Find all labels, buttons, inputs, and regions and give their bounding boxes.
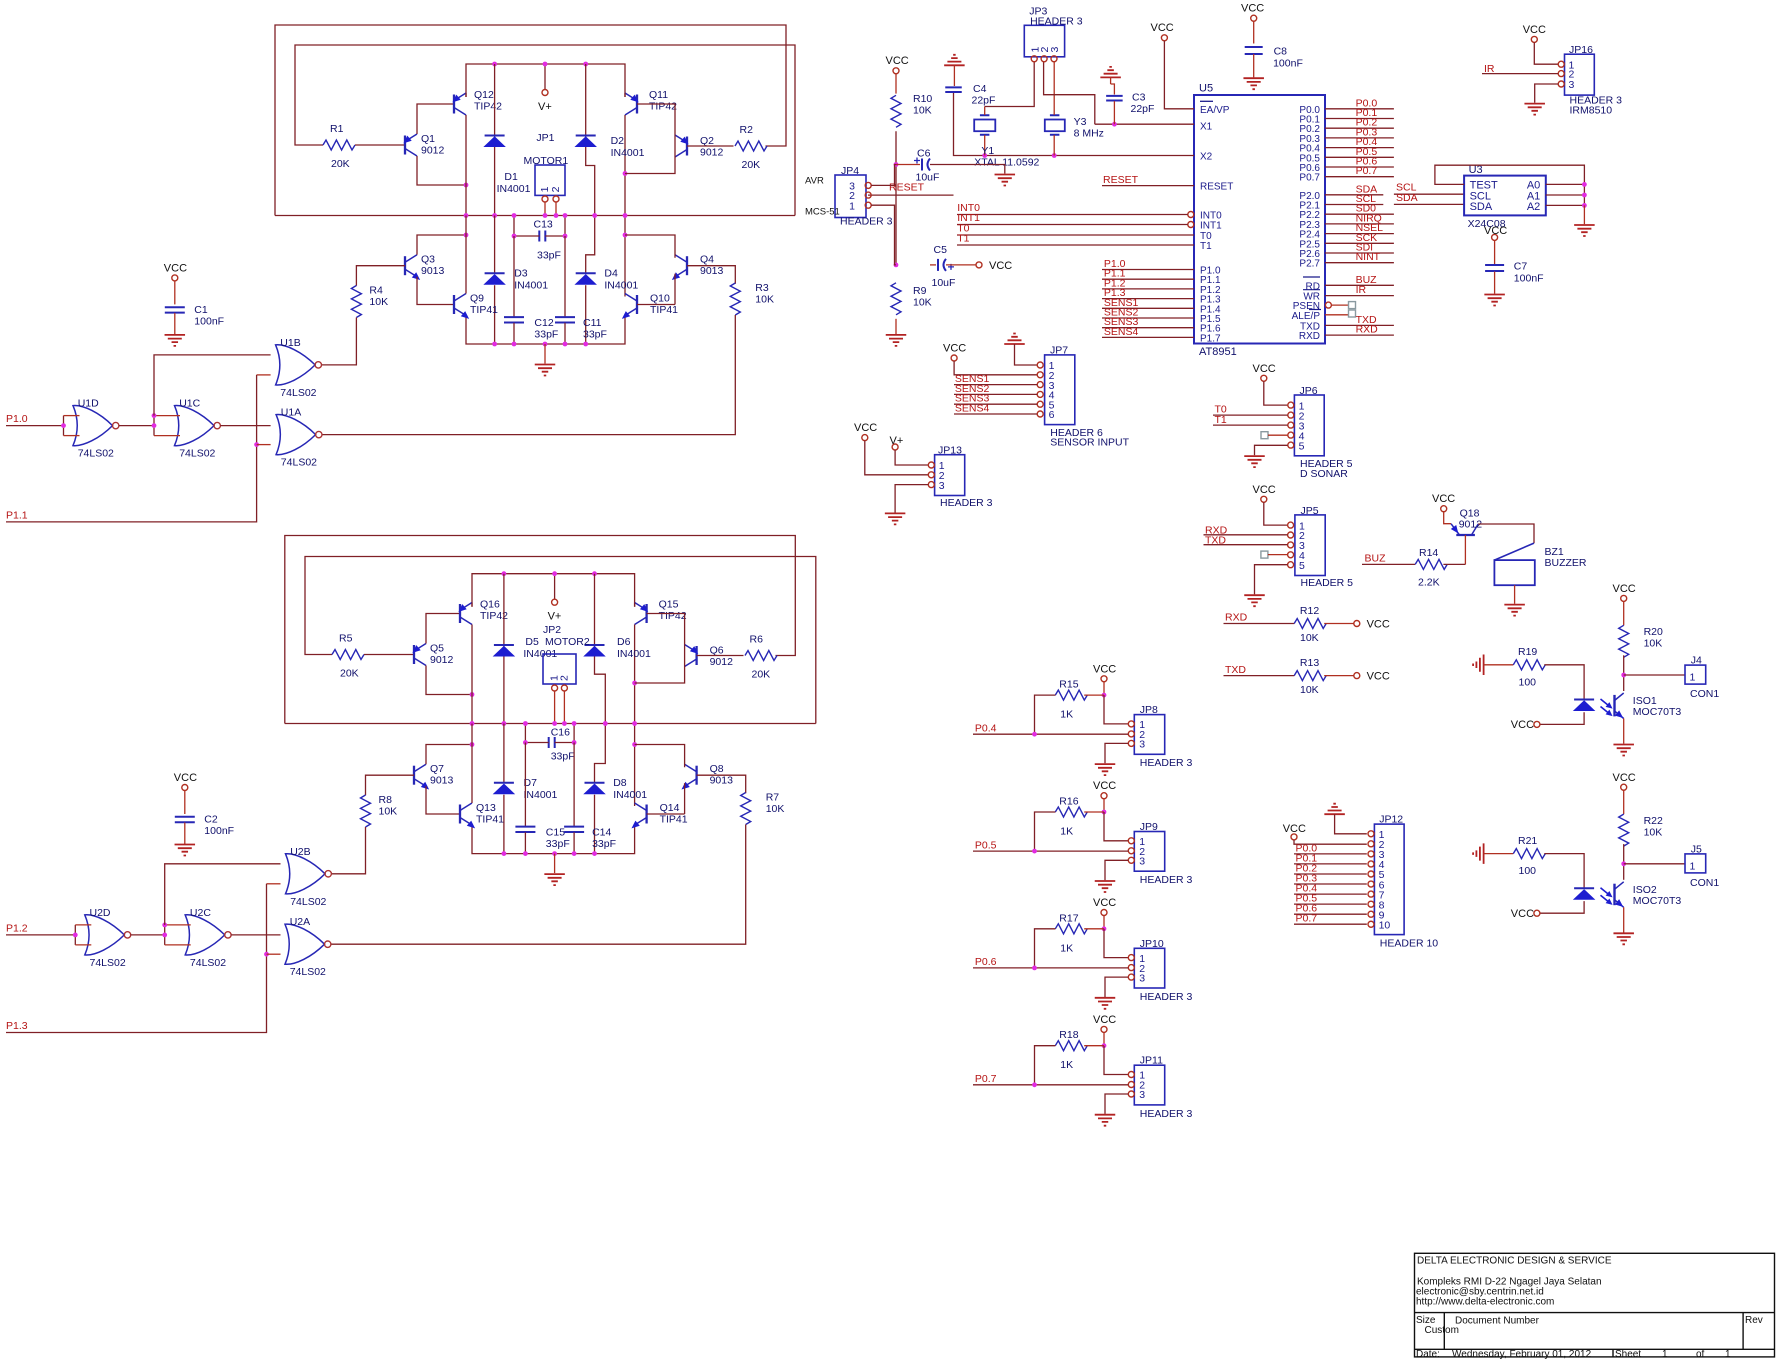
svg-text:74LS02: 74LS02 [90, 957, 126, 969]
svg-text:R16: R16 [1059, 796, 1078, 808]
junction [512, 234, 517, 239]
svg-text:T1: T1 [1200, 241, 1212, 252]
label Q6 [710, 645, 724, 657]
wire U1C input2 stub [154, 435, 180, 437]
label U1C value [179, 448, 215, 460]
label D2 value [611, 147, 645, 159]
label R10 [913, 93, 932, 105]
svg-text:1: 1 [1725, 1349, 1731, 1359]
wire net P0.7 JP12 [1294, 923, 1367, 925]
transistor Q14 TIP41 NPN [629, 803, 646, 831]
svg-text:V+: V+ [538, 101, 552, 113]
power VCC Q18 [1432, 493, 1455, 512]
NOR gate U1A 74LS02 [276, 415, 322, 455]
wire ISO2 emitter to ground [1623, 907, 1625, 932]
label C12 [534, 317, 553, 329]
svg-text:R20: R20 [1644, 626, 1663, 638]
connector JP7 HEADER 6 [1045, 355, 1075, 425]
label U2A [290, 916, 310, 928]
label Q15 value [659, 610, 687, 622]
wire to J4 [1624, 674, 1685, 676]
IC U5 AT89S51 microcontroller [1194, 95, 1325, 344]
label Q11 [649, 89, 668, 101]
svg-text:C16: C16 [551, 727, 570, 739]
svg-text:Rev: Rev [1745, 1315, 1763, 1326]
wire VCC to R16 [1103, 799, 1105, 812]
junction [572, 740, 577, 745]
svg-text:SENSOR INPUT: SENSOR INPUT [1050, 437, 1129, 449]
label U2D [90, 907, 111, 919]
pin 2 JP5 [1288, 530, 1305, 542]
svg-text:VCC: VCC [164, 262, 187, 274]
pin 2 JP6 [1288, 410, 1305, 422]
connector JP5 HEADER 5 [1295, 515, 1325, 576]
pin 5 JP6 [1288, 440, 1305, 452]
label R14 [1419, 547, 1438, 559]
connector JP9 HEADER 3 [1134, 832, 1164, 872]
svg-text:of: of [1696, 1349, 1705, 1359]
net label P1.2 [6, 922, 28, 934]
power VCC JP7 [943, 343, 966, 362]
pin WR U5 [1303, 292, 1320, 303]
transistor Q9 TIP41 NPN [454, 294, 471, 322]
ground R19 [1473, 655, 1484, 676]
wire VCC to JP16 pin1 [1534, 42, 1558, 64]
label C16 [551, 727, 570, 739]
junction [512, 213, 517, 218]
label U5 value [1199, 346, 1237, 358]
svg-text:20K: 20K [331, 158, 350, 170]
svg-text:VCC: VCC [1484, 225, 1507, 237]
svg-text:C5: C5 [934, 244, 948, 256]
ground ISO1 [1613, 745, 1634, 756]
net label NSEL [1356, 222, 1384, 234]
wire net T0 [957, 234, 1194, 236]
wire U2C input tie [164, 925, 166, 945]
wire C11 column [564, 236, 566, 317]
capacitor C15 33pF [515, 827, 535, 832]
svg-text:JP1: JP1 [536, 132, 554, 144]
svg-text:R10: R10 [913, 93, 932, 105]
ground [175, 845, 196, 856]
svg-text:P1.0: P1.0 [6, 413, 28, 425]
net label RXD JP5 [1205, 524, 1228, 536]
net label P1.0 [1104, 258, 1126, 270]
junction [552, 721, 557, 726]
label Q11 value [649, 101, 677, 113]
label D3 [514, 268, 528, 280]
wire D1 column [494, 64, 496, 216]
wire Q15 base to Q6 emitter [647, 614, 685, 645]
wire net SENS4 JP7 [954, 413, 1037, 415]
transistor Q10 TIP41 NPN [620, 294, 637, 322]
svg-text:Q6: Q6 [710, 645, 724, 657]
wire JP1 pin2 [555, 202, 557, 216]
label MOTOR1 [524, 155, 569, 167]
svg-text:D8: D8 [613, 777, 627, 789]
resistor R2 20K [735, 141, 767, 151]
resistor R20 10K [1619, 625, 1629, 657]
pin 3 JP6 [1288, 420, 1305, 432]
diode D6 IN4001 [585, 645, 605, 656]
net label P0.0 U5 [1356, 97, 1378, 109]
svg-text:JP13: JP13 [938, 445, 962, 457]
power V+ JP13 [890, 435, 904, 447]
wire net P0.3 [1325, 137, 1394, 139]
pin P2.2 U5 [1299, 210, 1320, 221]
pin TXD U5 [1300, 321, 1320, 332]
ground R21 [1473, 843, 1484, 864]
svg-text:TIP42: TIP42 [474, 101, 502, 113]
wire net SDA to U3 [1394, 203, 1464, 205]
junction [470, 721, 475, 726]
svg-text:IN4001: IN4001 [611, 147, 645, 159]
label U1C [179, 398, 200, 410]
pin A2 U3 [1527, 201, 1540, 213]
svg-text:TIP41: TIP41 [470, 304, 498, 316]
svg-text:JP2: JP2 [543, 624, 561, 636]
title address [1417, 1277, 1602, 1288]
junction [152, 423, 157, 428]
label C5 [934, 244, 948, 256]
svg-text:R18: R18 [1059, 1029, 1078, 1041]
title company [1417, 1256, 1612, 1267]
label U1B value [280, 387, 316, 399]
ground JP8 [1095, 764, 1116, 775]
svg-text:NINT: NINT [1356, 251, 1381, 263]
label C7 [1514, 261, 1528, 273]
connector JP6 HEADER 5 [1294, 395, 1324, 456]
power VCC R10 [886, 55, 909, 74]
wire R8 to gate output [331, 827, 365, 874]
ground [165, 335, 186, 346]
pin 4 JP12 [1368, 859, 1385, 871]
svg-text:74LS02: 74LS02 [190, 957, 226, 969]
connector JP12 HEADER 10 [1374, 824, 1404, 935]
svg-text:R6: R6 [750, 634, 764, 646]
wire net P0.2 [1325, 127, 1394, 129]
wire U3 A0 [1546, 183, 1585, 185]
svg-text:Sheet: Sheet [1615, 1349, 1641, 1359]
label R5 value [340, 668, 359, 680]
label JP7 value [1050, 427, 1103, 439]
label Y1 value [974, 157, 1039, 169]
wire R1 to Q1 base [355, 144, 405, 146]
capacitor C6 10uF electrolytic [914, 158, 930, 171]
svg-text:D4: D4 [604, 268, 618, 280]
pin P1.7 U5 [1200, 333, 1221, 344]
connector JP16 HEADER 3 IRM8510 [1565, 54, 1595, 95]
svg-text:D2: D2 [611, 135, 625, 147]
svg-text:VCC: VCC [1511, 719, 1534, 731]
label Q18 [1460, 508, 1480, 520]
svg-text:9012: 9012 [710, 656, 734, 668]
label JP5 value [1301, 577, 1354, 589]
wire U2C to U2B input1 [165, 864, 281, 925]
wire VCC to JP13 pin2 [865, 441, 929, 475]
svg-text:10K: 10K [913, 297, 932, 309]
svg-text:HEADER 3: HEADER 3 [1030, 15, 1083, 27]
svg-text:SDA: SDA [1396, 192, 1418, 204]
pin 1 JP8 [1128, 719, 1145, 731]
wire net P0.4 to JP8 pin2 [973, 733, 1128, 735]
label JP13 [938, 445, 962, 457]
svg-text:Q2: Q2 [700, 135, 714, 147]
label Q10 [650, 293, 670, 305]
title size [1416, 1315, 1436, 1326]
svg-text:INT1: INT1 [1200, 221, 1222, 232]
NOR gate U1B 74LS02 [276, 345, 322, 385]
junction lower bus [572, 851, 577, 856]
resistor R8 10K [361, 795, 371, 827]
svg-text:JP4: JP4 [841, 165, 859, 177]
connector J5 CON1 [1685, 854, 1706, 873]
pin 1 JP16 [1558, 59, 1574, 71]
label R12 value [1300, 632, 1319, 644]
wire net P0.1 JP12 [1294, 863, 1367, 865]
svg-text:T1: T1 [957, 233, 969, 245]
pin 3 JP12 [1368, 849, 1385, 861]
pin EA/VP U5 [1200, 105, 1230, 116]
svg-text:VCC: VCC [1093, 897, 1116, 909]
capacitor C4 22pF [945, 87, 962, 92]
net label P0.7 JP11 [975, 1073, 997, 1085]
wire JP8 pin3 to ground [1105, 743, 1128, 763]
wire U2B input2 stub [267, 883, 281, 885]
wire VCC to C7 [1494, 240, 1496, 264]
svg-text:33pF: 33pF [583, 328, 607, 340]
wire Q12 collector column [465, 115, 467, 216]
junction [264, 952, 269, 957]
wire JP4 pin2 RESET stub [868, 194, 954, 196]
wire BZ1 to ground [1514, 585, 1516, 604]
svg-text:VCC: VCC [1367, 618, 1390, 630]
svg-text:C3: C3 [1132, 92, 1146, 104]
wire Q3 base to R4 [356, 266, 405, 286]
wire net P1.1 [1102, 278, 1194, 280]
power VCC JP6 [1253, 363, 1276, 382]
wire Q2 base to R2 [687, 145, 734, 147]
pin 2 JP10 [1128, 963, 1145, 975]
capacitor C3 22pF [1106, 96, 1123, 101]
wire net P0.4 [1325, 147, 1394, 149]
label D5 value [523, 648, 557, 660]
svg-text:HEADER 10: HEADER 10 [1380, 938, 1439, 950]
net label P0.6 JP12 [1296, 903, 1318, 915]
opto arrows ISO2 [1601, 888, 1615, 907]
wire Q4 collector [625, 235, 675, 258]
ground C8 [1243, 78, 1264, 89]
wire U1B input2 stub [257, 374, 271, 376]
pin ALE/P U5 [1292, 311, 1321, 322]
svg-text:MOTOR2: MOTOR2 [545, 636, 590, 648]
pin P2.6 U5 [1299, 249, 1320, 260]
resistor R21 100 [1513, 849, 1545, 859]
no-connect JP6 pin4 [1261, 432, 1268, 439]
wire U1C input tie [153, 416, 155, 436]
label JP10 value [1140, 991, 1193, 1003]
power VCC ISO2 LED [1511, 908, 1540, 920]
net label SDI [1356, 242, 1374, 254]
svg-text:D6: D6 [617, 636, 631, 648]
label JP16 value2 [1570, 105, 1613, 117]
svg-text:U2A: U2A [290, 916, 310, 928]
wire C2 to ground [184, 823, 186, 845]
pin PSEN underline [1309, 309, 1321, 311]
junction lower bus [502, 851, 507, 856]
svg-text:8 MHz: 8 MHz [1074, 128, 1104, 140]
title url [1416, 1297, 1554, 1308]
wire Q16 collector column [471, 625, 473, 724]
label JP7 [1050, 345, 1068, 357]
net label SDA [1356, 183, 1378, 195]
wire to C6 [896, 164, 920, 166]
wire R3 to gate output [322, 315, 735, 435]
wire net SCK [1325, 242, 1394, 244]
svg-text:20K: 20K [340, 668, 359, 680]
junction [162, 923, 167, 928]
wire V+ rail [466, 64, 625, 97]
svg-text:A2: A2 [1527, 201, 1540, 213]
wire R16 right [1084, 811, 1104, 813]
pin P0.5 U5 [1299, 153, 1320, 164]
power VCC R16 [1093, 780, 1116, 799]
label ISO1 value [1633, 706, 1682, 718]
junction [1102, 1043, 1107, 1048]
svg-text:100nF: 100nF [1514, 273, 1544, 285]
wire net NIRQ [1325, 223, 1394, 225]
svg-text:D5: D5 [525, 636, 539, 648]
net label SCK [1356, 232, 1378, 244]
svg-text:http://www.delta-electronic.co: http://www.delta-electronic.com [1416, 1297, 1554, 1308]
transistor Q15 TIP42 PNP [635, 603, 651, 625]
resistor R9 10K [891, 283, 901, 315]
wire Q7 emitter to Q13 base [426, 786, 460, 814]
wire feedback R2 loop [275, 25, 786, 216]
svg-text:TIP42: TIP42 [659, 610, 687, 622]
wire Q8 collector [635, 745, 685, 768]
junction [554, 213, 559, 218]
label C2 value [204, 825, 234, 837]
wire net P1.3 [1102, 298, 1194, 300]
wire jog to C3 [1111, 84, 1115, 95]
wire C1 to ground [174, 313, 176, 335]
net label P0.7 JP12 [1296, 913, 1318, 925]
wire VCC to JP7 pin2 [954, 361, 1037, 375]
diode D2 IN4001 [576, 136, 596, 147]
label Q12 [474, 89, 494, 101]
label Q9 [470, 293, 484, 305]
ground JP6 [1244, 456, 1265, 467]
wire U1A input2 stub [257, 444, 271, 446]
wire C14 bottom [573, 832, 575, 853]
svg-text:JP10: JP10 [1140, 938, 1164, 950]
junction lower bus [523, 851, 528, 856]
wire U3 TEST loop [1435, 165, 1585, 184]
wire U2C input2 stub [165, 944, 191, 946]
label Q5 [430, 643, 444, 655]
wire to J5 [1624, 863, 1685, 865]
connector JP2 MOTOR2 [543, 654, 576, 684]
svg-text:BUZ: BUZ [1365, 553, 1387, 565]
svg-text:HEADER 3: HEADER 3 [1140, 1108, 1193, 1120]
label ISO1 [1633, 695, 1657, 707]
wire R7 to gate output [331, 825, 746, 945]
label D6 [617, 636, 631, 648]
pin 1 JP10 [1128, 953, 1145, 965]
resistor R16 1K [1055, 807, 1087, 817]
svg-text:D1: D1 [504, 171, 518, 183]
label R17 value [1060, 942, 1073, 954]
pin INT0 U5 [1200, 211, 1222, 222]
junction lower bus [543, 342, 548, 347]
wire Q18 collector to buzzer [1478, 524, 1534, 543]
wire net SCL [1325, 204, 1383, 206]
pin 1 JP2 [549, 675, 561, 691]
junction lower bus [492, 342, 497, 347]
label Y1 [981, 145, 994, 157]
wire U1C input1 stub [154, 415, 180, 417]
pin 4 JP7 [1037, 390, 1054, 402]
junction C5 [894, 263, 899, 268]
svg-text:P1.7: P1.7 [1200, 333, 1221, 344]
svg-text:P0.7: P0.7 [1356, 165, 1378, 177]
label U3 [1469, 164, 1483, 176]
wire D3 column bottom [494, 285, 496, 344]
wire JP6 pin5 to ground [1255, 445, 1288, 455]
wire Y1 bottom [984, 135, 986, 156]
svg-text:U1B: U1B [280, 337, 300, 349]
svg-text:HEADER 3: HEADER 3 [1140, 757, 1193, 769]
wire U2D output to U2C input [131, 934, 165, 936]
connector JP3 HEADER 3 [1024, 25, 1064, 57]
svg-text:1K: 1K [1060, 826, 1073, 838]
junction [543, 213, 548, 218]
pin 2 JP2 [558, 675, 570, 691]
pin circle PSEN [1325, 302, 1331, 308]
svg-text:SDA: SDA [1470, 201, 1493, 213]
label U1A value [281, 457, 317, 469]
net label P0.6 U5 [1356, 156, 1378, 168]
power VCC R18 [1093, 1014, 1116, 1033]
label JP3 value [1030, 15, 1083, 27]
label C6 [917, 148, 931, 160]
wire VCC to R22 [1623, 790, 1625, 814]
label R10 value [913, 105, 932, 117]
wire D6 D8 column [595, 574, 606, 783]
pin P0.2 U5 [1299, 124, 1320, 135]
power VCC C8 [1241, 3, 1264, 22]
svg-text:9012: 9012 [700, 147, 724, 159]
wire net P0.1 [1325, 118, 1394, 120]
wire net P0.0 JP12 [1294, 853, 1367, 855]
wire net SDI [1325, 252, 1394, 254]
svg-text:33pF: 33pF [537, 250, 561, 262]
transistor Q8 9013 NPN [679, 764, 696, 792]
label JP6 [1300, 385, 1318, 397]
label Q16 value [480, 610, 508, 622]
LED ISO1 emitter [1574, 700, 1594, 711]
svg-text:C4: C4 [973, 83, 987, 95]
wire net NINT [1325, 262, 1394, 264]
label D4 [604, 268, 618, 280]
svg-text:IN4001: IN4001 [613, 789, 647, 801]
svg-text:Q10: Q10 [650, 293, 670, 305]
wire C16 left [525, 742, 548, 744]
resistor R6 20K [745, 651, 777, 661]
wire C16 right [555, 742, 574, 744]
junction [623, 233, 628, 238]
